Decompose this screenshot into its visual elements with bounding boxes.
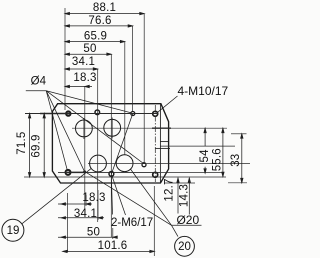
svg-text:Ø4: Ø4 [31,76,47,88]
svg-text:34.1: 34.1 [72,56,95,68]
svg-text:18.3: 18.3 [73,72,96,84]
svg-text:76.6: 76.6 [88,15,111,27]
svg-text:69.9: 69.9 [31,134,43,157]
svg-text:Ø20: Ø20 [176,213,199,227]
svg-text:12.7: 12.7 [163,178,175,201]
svg-text:14.3: 14.3 [178,184,190,207]
svg-text:2-M6/17: 2-M6/17 [111,217,153,229]
svg-text:55.6: 55.6 [212,148,224,171]
svg-text:54: 54 [199,149,211,163]
svg-text:88.1: 88.1 [93,2,116,14]
svg-text:33: 33 [230,154,242,167]
svg-text:50: 50 [83,43,96,55]
svg-text:18.3: 18.3 [82,192,105,204]
svg-text:65.9: 65.9 [84,30,107,42]
svg-text:4-M10/17: 4-M10/17 [178,84,229,98]
svg-text:19: 19 [7,225,20,237]
svg-text:101.6: 101.6 [98,240,128,252]
svg-text:50: 50 [87,227,100,239]
svg-text:20: 20 [178,241,191,253]
svg-text:71.5: 71.5 [16,132,28,155]
svg-text:34.1: 34.1 [74,208,97,220]
